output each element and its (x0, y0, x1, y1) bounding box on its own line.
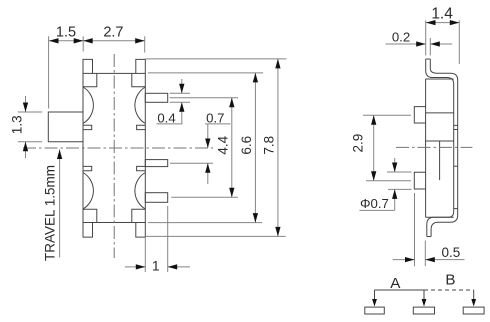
svg-text:2.9: 2.9 (351, 134, 366, 153)
svg-text:0.5: 0.5 (442, 245, 461, 260)
svg-text:A: A (390, 275, 401, 292)
svg-text:B: B (445, 272, 455, 289)
svg-text:6.6: 6.6 (239, 136, 254, 155)
svg-text:TRAVEL 1.5mm: TRAVEL 1.5mm (43, 165, 58, 261)
svg-text:0.2: 0.2 (392, 29, 410, 44)
svg-text:0.7: 0.7 (206, 111, 224, 126)
svg-text:4.4: 4.4 (216, 135, 231, 154)
svg-text:2.7: 2.7 (103, 25, 123, 41)
svg-text:7.8: 7.8 (262, 136, 277, 155)
svg-text:0.4: 0.4 (157, 111, 175, 126)
svg-text:1.3: 1.3 (10, 115, 25, 134)
svg-text:1.5: 1.5 (56, 25, 76, 41)
svg-text:Φ0.7: Φ0.7 (360, 196, 389, 211)
svg-text:1.4: 1.4 (431, 6, 453, 23)
svg-text:1: 1 (152, 258, 160, 274)
